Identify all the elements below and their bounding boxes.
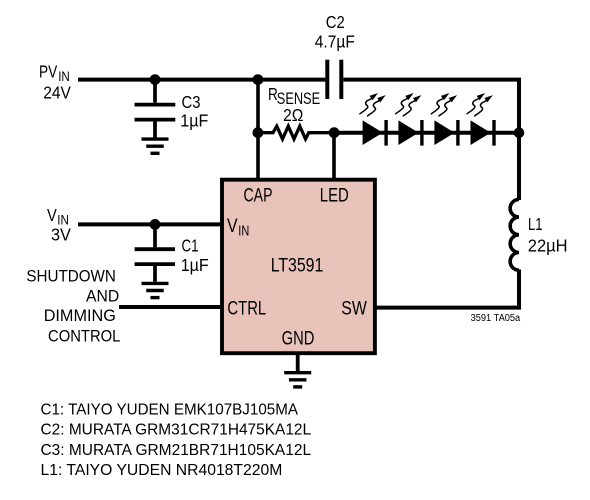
wire PVIN bus [78,78,325,82]
node LED string end junction [514,128,525,139]
svg-text:1µF: 1µF [180,111,208,131]
LED D1 [363,120,387,146]
wire CTRL input [119,305,223,309]
svg-text:IN: IN [238,224,249,240]
svg-text:GND: GND [282,327,315,349]
svg-text:C1: TAIYO YUDEN EMK107BJ105MA: C1: TAIYO YUDEN EMK107BJ105MA [41,402,299,419]
svg-text:24V: 24V [43,82,71,102]
svg-text:3591 TA05a: 3591 TA05a [471,313,521,324]
node PVIN/CAP junction [253,74,264,85]
svg-text:4.7µF: 4.7µF [315,31,355,51]
wire VIN input [78,222,223,226]
svg-text:AND: AND [86,287,119,306]
svg-text:LT3591: LT3591 [271,254,324,276]
LED D2 [398,120,422,146]
label RSENSE [268,84,320,108]
node PVIN/C3 junction [150,74,161,85]
LED D4 [471,120,495,146]
capacitor C1 [135,226,175,282]
svg-text:SHUTDOWN: SHUTDOWN [26,266,116,285]
ground IC [284,373,311,387]
svg-text:V: V [47,205,57,225]
LED D1 light rays [360,93,378,114]
ground C3 [142,139,169,153]
node RSENSE left junction [253,127,264,138]
svg-text:V: V [227,215,238,237]
svg-text:3V: 3V [51,225,71,245]
wire CAP pin riser [256,80,260,181]
svg-text:DIMMING: DIMMING [44,306,116,325]
svg-text:C3: C3 [182,92,201,112]
LED D3 light rays [431,93,449,114]
capacitor C2 [327,60,341,99]
label PVIN [39,62,71,103]
svg-text:L1: L1 [528,214,543,234]
wire junction to L1 [517,133,521,200]
LED D4 light rays [467,93,485,114]
node VIN/C1 junction [150,219,161,230]
LED D2 light rays [396,93,414,114]
svg-text:L1: TAIYO YUDEN NR4018T220M: L1: TAIYO YUDEN NR4018T220M [41,462,283,479]
label shutdown control [26,266,120,345]
wire C2 output to LED string top [343,80,519,135]
svg-text:C2: C2 [326,12,345,32]
wire LED string [334,131,519,135]
wire GND pin [296,353,300,371]
svg-text:1µF: 1µF [181,255,209,275]
label pin VIN [227,215,249,240]
svg-text:C1: C1 [182,236,199,256]
svg-text:CAP: CAP [244,185,273,207]
svg-text:LED: LED [320,185,349,207]
capacitor C3 [135,81,176,138]
resistor RSENSE [258,126,334,139]
node RSENSE right junction [329,127,340,138]
svg-text:2Ω: 2Ω [283,105,303,125]
ground C1 [142,283,169,297]
svg-text:CONTROL: CONTROL [48,326,120,345]
IC U1 LT3591 body [222,180,375,354]
svg-text:C3: MURATA GRM21BR71H105KA12L: C3: MURATA GRM21BR71H105KA12L [41,442,312,459]
svg-text:SW: SW [341,298,367,320]
inductor L1 [510,199,519,270]
svg-text:C2: MURATA GRM31CR71H475KA12L: C2: MURATA GRM31CR71H475KA12L [41,422,312,439]
wire LED pin riser [332,133,336,181]
svg-text:PV: PV [39,62,57,82]
LED D3 [434,120,458,146]
svg-text:CTRL: CTRL [227,298,266,320]
svg-text:22µH: 22µH [528,236,568,256]
label VIN input [47,205,71,245]
wire L1 to SW pin [375,270,519,308]
